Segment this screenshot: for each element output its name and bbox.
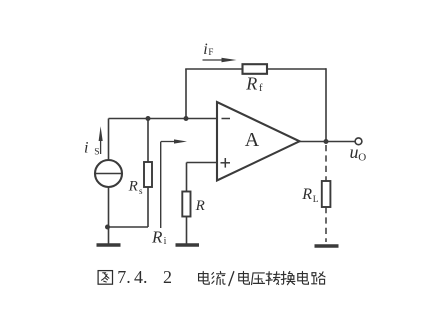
svg-text:f: f — [259, 83, 263, 94]
wire: lead from + input corner down to R — [186, 163, 188, 192]
wire: feedback top left segment — [185, 68, 242, 70]
iS current arrow — [100, 134, 102, 154]
hanzi 转 — [266, 272, 280, 285]
hanzi 图 — [98, 271, 112, 285]
svg-text:A: A — [245, 129, 260, 151]
svg-text:R: R — [151, 227, 163, 246]
junction dot output node — [324, 139, 329, 144]
hanzi 压 — [252, 273, 265, 285]
label Ri — [151, 227, 167, 247]
svg-text:7.: 7. — [117, 267, 131, 287]
hanzi 换 — [281, 271, 295, 284]
resistor Rs — [144, 162, 152, 187]
label Rs — [128, 178, 143, 196]
svg-text:u: u — [350, 142, 359, 162]
svg-text:L: L — [313, 195, 319, 205]
wire: Rs top lead — [147, 119, 149, 163]
label uO — [350, 142, 367, 163]
caption numerals — [117, 267, 172, 287]
wire: current source bottom lead — [108, 187, 110, 227]
wire: output wire to terminal — [299, 141, 356, 143]
wire: Rs bottom lead — [147, 187, 149, 227]
label iS — [84, 140, 100, 158]
Ri arrow head — [174, 139, 187, 143]
hanzi 电 (second) — [239, 271, 250, 284]
svg-text:s: s — [139, 186, 143, 196]
hanzi 电 — [199, 271, 210, 284]
svg-text:2: 2 — [163, 267, 172, 287]
wire: feedback right vertical segment to output node — [325, 68, 327, 141]
ground under RL — [315, 244, 339, 247]
label Rf — [245, 74, 263, 95]
wire: R bottom lead to ground — [186, 217, 188, 245]
label R — [195, 198, 205, 214]
label RL — [301, 186, 319, 205]
wire: current source top lead — [108, 119, 110, 161]
wire: feedback left vertical segment — [185, 69, 187, 119]
svg-text:S: S — [94, 148, 99, 158]
resistor Rf — [243, 64, 268, 74]
label iF — [203, 41, 213, 58]
junction dot on top wire at feedback tap — [184, 116, 189, 121]
svg-text:R: R — [301, 186, 312, 203]
wire: ground lead under current source — [108, 227, 110, 244]
svg-text:O: O — [358, 151, 366, 163]
svg-text:F: F — [208, 47, 213, 57]
op-amp plus input symbol — [221, 162, 231, 164]
resistor RL (dashed leads) — [325, 145, 327, 181]
resistor R — [182, 192, 190, 217]
hanzi 电 (third) — [298, 271, 309, 284]
svg-text:i: i — [164, 236, 167, 247]
ground under R — [176, 243, 200, 246]
svg-text:4.: 4. — [134, 267, 148, 287]
label A op-amp — [245, 129, 260, 151]
op-amp U1 triangle — [217, 102, 300, 181]
junction dot bottom left — [105, 225, 110, 230]
svg-text:R: R — [128, 178, 138, 194]
wire: top input wire from current source to inverting input — [109, 118, 218, 120]
svg-text:i: i — [84, 140, 88, 157]
current source iS — [95, 160, 122, 187]
Ri input-resistance indicator line with arrow — [160, 142, 162, 229]
slash in caption — [229, 272, 234, 286]
iF current arrow — [203, 59, 225, 61]
svg-text:R: R — [195, 198, 205, 214]
hanzi 路 — [312, 272, 325, 284]
wire: noninverting input wire — [187, 162, 218, 164]
junction dot on top wire at Rs — [146, 116, 151, 121]
wire: feedback top right segment — [267, 68, 326, 70]
op-amp minus input symbol — [222, 118, 231, 120]
output terminal circle — [355, 138, 362, 145]
caption: 图 7.4.2 电流/电压转换电路 — [98, 271, 112, 285]
svg-text:i: i — [203, 41, 207, 58]
wire: bottom left horizontal wire — [107, 226, 148, 228]
ground under current source — [97, 243, 121, 246]
hanzi 流 — [212, 271, 225, 284]
svg-text:R: R — [245, 74, 257, 94]
